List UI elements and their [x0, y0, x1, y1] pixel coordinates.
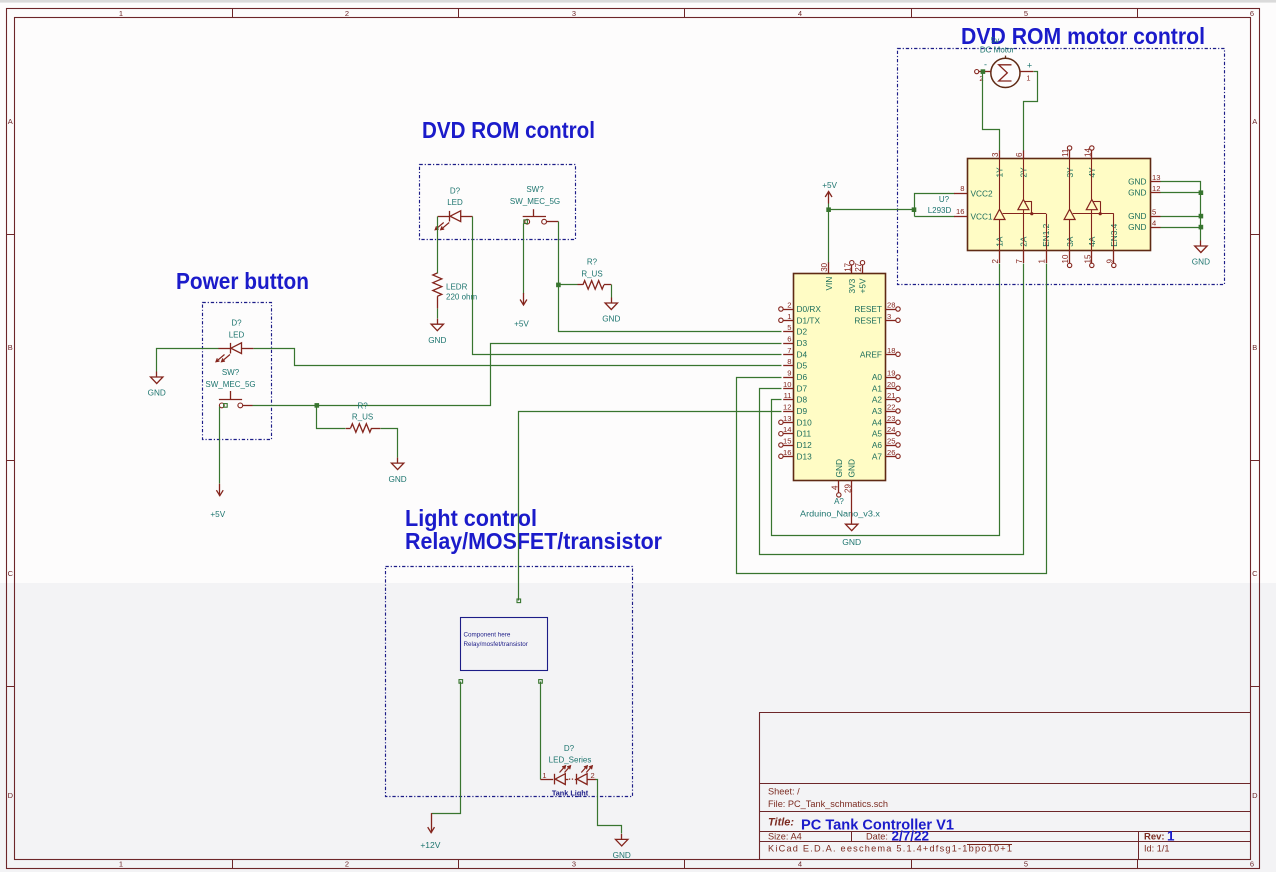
svg-text:D?: D? — [450, 187, 461, 196]
switch SW? SW_MEC_5G (DVD ROM) — [510, 185, 560, 224]
pin 15 4A (L293D bottom) — [1083, 236, 1097, 267]
svg-text:5: 5 — [1024, 9, 1028, 18]
svg-text:D?: D? — [564, 744, 575, 753]
wire: DVD switch right down to D2 — [559, 222, 782, 332]
wire: LEDR to GND — [437, 309, 439, 319]
svg-text:Date:: Date: — [866, 831, 888, 841]
svg-text:+: + — [1027, 61, 1032, 71]
dashed box: Power button — [203, 303, 272, 440]
svg-text:GND: GND — [1192, 258, 1210, 267]
svg-text:D11: D11 — [797, 429, 812, 439]
svg-text:D13: D13 — [797, 451, 813, 461]
svg-text:R?: R? — [357, 401, 368, 410]
svg-text:A1: A1 — [872, 383, 883, 393]
svg-text:GND: GND — [834, 459, 844, 477]
svg-text:A: A — [8, 117, 13, 126]
pin 3 1Y (L293D top) — [991, 150, 1005, 177]
svg-text:3: 3 — [887, 312, 891, 321]
svg-text:7: 7 — [787, 346, 791, 355]
svg-text:+5V: +5V — [210, 510, 225, 519]
pin 4 GND (Arduino bottom, unconnected) — [830, 459, 843, 497]
svg-text:Id: 1/1: Id: 1/1 — [1144, 844, 1170, 854]
pin 26 A7 (Arduino right) — [872, 448, 900, 462]
svg-text:D3: D3 — [797, 338, 808, 348]
svg-text:Component here: Component here — [464, 632, 511, 639]
svg-text:C: C — [1252, 569, 1258, 578]
svg-text:29: 29 — [843, 484, 852, 493]
op-amp U? L293D body — [928, 159, 1151, 251]
svg-text:8: 8 — [960, 184, 964, 193]
svg-text:10: 10 — [1061, 254, 1070, 263]
pin 5 D2 (Arduino left) — [783, 323, 807, 337]
pin 15 D12 (Arduino left) — [779, 437, 812, 451]
svg-text:GND: GND — [1128, 222, 1146, 232]
svg-text:Arduino_Nano_v3.x: Arduino_Nano_v3.x — [800, 510, 880, 519]
svg-text:Title:: Title: — [768, 817, 794, 829]
pin 3 RESET (Arduino right) — [854, 312, 900, 326]
pin 7 D4 (Arduino left) — [783, 346, 807, 360]
ground (Arduino) — [842, 524, 861, 547]
dashed box: Light control — [386, 567, 633, 797]
svg-text:KiCad E.D.A. eeschema 5.1.4+d: KiCad E.D.A. eeschema 5.1.4+dfsg1-1bpo10… — [768, 844, 1012, 854]
svg-text:DVD ROM control: DVD ROM control — [422, 117, 595, 143]
svg-text:-: - — [984, 60, 987, 70]
svg-text:A5: A5 — [872, 429, 883, 439]
svg-text:11: 11 — [784, 391, 792, 400]
svg-text:1: 1 — [119, 859, 123, 868]
pin 18 AREF (Arduino right) — [860, 346, 900, 360]
wire: LED_Series to GND — [596, 780, 622, 834]
pin 12 GND (L293D right) — [1128, 184, 1161, 198]
svg-text:11: 11 — [1061, 148, 1070, 157]
svg-text:DC Motor: DC Motor — [980, 46, 1015, 55]
svg-text:D2: D2 — [797, 327, 808, 337]
svg-text:12: 12 — [783, 403, 791, 412]
dashed box: DVD ROM control — [420, 165, 576, 240]
wire: DVD LED right to D4 — [473, 217, 782, 355]
svg-text:L293D: L293D — [928, 206, 952, 215]
pin 25 A6 (Arduino right) — [872, 437, 900, 451]
svg-text:3: 3 — [572, 9, 576, 18]
svg-text:2/7/22: 2/7/22 — [892, 828, 930, 843]
svg-text:8: 8 — [787, 357, 791, 366]
wire: power switch to +5V — [220, 404, 228, 484]
svg-text:5v: 5v — [991, 36, 999, 45]
ground (power R_US) — [388, 458, 406, 484]
svg-text:19: 19 — [887, 369, 895, 378]
svg-text:6: 6 — [1250, 859, 1254, 868]
wire: DVD LED left to LEDR — [437, 217, 439, 274]
svg-text:23: 23 — [887, 414, 895, 423]
svg-text:R?: R? — [587, 258, 598, 267]
svg-text:D: D — [8, 791, 14, 800]
pin 22 A3 (Arduino right) — [872, 403, 900, 417]
pin 1 EN1.2 (L293D bottom) — [1038, 223, 1052, 263]
svg-text:GND: GND — [1128, 188, 1146, 198]
svg-text:File: PC_Tank_schmatics.sch: File: PC_Tank_schmatics.sch — [768, 799, 888, 809]
svg-text:28: 28 — [887, 301, 895, 310]
motor M? DC Motor — [975, 36, 1034, 88]
svg-text:Relay/MOSFET/transistor: Relay/MOSFET/transistor — [405, 528, 662, 554]
wire: +5V junction to L293D VCC pins — [829, 194, 955, 217]
wire: Arduino D9 to light control — [517, 412, 782, 603]
svg-text:4: 4 — [798, 9, 802, 18]
junction (DVD switch/R) — [556, 283, 561, 288]
svg-text:GND: GND — [847, 459, 857, 477]
svg-text:+5V: +5V — [514, 320, 529, 329]
wire: power LED left to GND — [157, 349, 219, 372]
L293D internal driver triangles — [994, 158, 1114, 250]
svg-text:D?: D? — [231, 319, 242, 328]
pin 17 3V3 (Arduino top, unconnected) — [843, 261, 857, 294]
wire: resistor to GND (power) — [381, 429, 398, 458]
svg-text:+5V: +5V — [858, 278, 868, 293]
title block — [759, 713, 1251, 860]
svg-text:Tank Light: Tank Light — [552, 789, 589, 798]
svg-text:17: 17 — [843, 262, 852, 271]
svg-text:VIN: VIN — [824, 277, 834, 291]
op-amp U A? Arduino_Nano_v3.x body — [794, 274, 886, 519]
svg-text:D9: D9 — [797, 406, 808, 416]
svg-text:A2: A2 — [872, 395, 883, 405]
pin 13 D10 (Arduino left) — [779, 414, 812, 428]
svg-text:A3: A3 — [872, 406, 883, 416]
svg-text:+12V: +12V — [420, 840, 440, 850]
svg-text:D8: D8 — [797, 395, 808, 405]
pin 28 RESET (Arduino right) — [854, 301, 900, 315]
svg-text:25: 25 — [887, 437, 895, 446]
wire: junction down to resistor — [317, 406, 346, 429]
svg-text:+5V: +5V — [822, 181, 837, 190]
pin 14 D11 (Arduino left) — [779, 425, 812, 439]
svg-text:20: 20 — [887, 380, 895, 389]
svg-text:D: D — [1252, 791, 1258, 800]
svg-text:LED: LED — [447, 198, 463, 207]
svg-text:7: 7 — [1015, 259, 1024, 264]
node: dangling wire right under component box — [539, 680, 543, 780]
svg-text:SW?: SW? — [526, 185, 544, 194]
svg-text:2: 2 — [991, 259, 1000, 264]
svg-text:D7: D7 — [797, 383, 808, 393]
svg-text:RESET: RESET — [854, 304, 882, 314]
power symbol +12V — [420, 813, 440, 850]
pin 4 GND (L293D right) — [1128, 219, 1161, 233]
svg-text:6: 6 — [1015, 152, 1024, 157]
LED D? (DVD ROM) — [435, 187, 472, 230]
switch SW? SW_MEC_5G (power button) — [205, 368, 255, 408]
svg-text:1: 1 — [542, 771, 546, 780]
svg-text:22: 22 — [887, 403, 895, 412]
svg-text:21: 21 — [887, 391, 895, 400]
LED D? LED_Series (Tank Light) — [541, 744, 596, 798]
dashed box: DVD ROM motor control — [898, 49, 1225, 285]
wire: DVD switch left to +5V — [524, 220, 528, 294]
svg-text:1: 1 — [1167, 828, 1175, 843]
pin 2 D0/RX (Arduino left) — [779, 301, 822, 315]
svg-text:D10: D10 — [797, 417, 813, 427]
pin 8 VCC2 (L293D) — [954, 184, 993, 199]
wire: junction to DVD resistor — [559, 284, 578, 286]
svg-text:2: 2 — [591, 771, 595, 780]
svg-text:Sheet: /: Sheet: / — [768, 786, 800, 796]
svg-text:1: 1 — [119, 9, 123, 18]
svg-text:A6: A6 — [872, 440, 883, 450]
svg-text:14: 14 — [783, 425, 791, 434]
svg-text:10: 10 — [783, 380, 791, 389]
svg-text:18: 18 — [887, 346, 895, 355]
svg-text:GND: GND — [148, 389, 166, 398]
svg-text:5: 5 — [787, 323, 791, 332]
pin 8 D5 (Arduino left) — [783, 357, 807, 371]
svg-text:6: 6 — [787, 335, 791, 344]
svg-text:GND: GND — [1128, 211, 1146, 221]
power symbol +5V (DVD ROM) — [514, 293, 529, 329]
svg-text:RESET: RESET — [854, 315, 882, 325]
node: dangling wire left under component box — [432, 680, 463, 814]
svg-text:15: 15 — [783, 437, 791, 446]
wire: VIN up to +5V junction — [828, 210, 830, 263]
component placeholder box (relay/mosfet/transistor) — [461, 618, 548, 671]
svg-text:D12: D12 — [797, 440, 813, 450]
svg-text:GND: GND — [613, 851, 631, 860]
svg-text:Relay/mosfet/transistor: Relay/mosfet/transistor — [464, 641, 528, 648]
svg-text:SW_MEC_5G: SW_MEC_5G — [510, 197, 560, 206]
wire: L293D GND pins to ground — [1161, 182, 1204, 241]
pin 16 D13 (Arduino left) — [779, 448, 812, 462]
svg-text:4: 4 — [830, 485, 839, 490]
pin 9 D6 (Arduino left) — [783, 369, 807, 383]
svg-text:VCC1: VCC1 — [971, 212, 994, 222]
svg-text:16: 16 — [956, 207, 964, 216]
svg-text:GND: GND — [388, 475, 406, 484]
wire: power switch to junction and R — [253, 344, 782, 406]
svg-text:13: 13 — [783, 414, 791, 423]
resistor R? R_US (power button) — [346, 401, 381, 432]
junction (power switch/R) — [315, 403, 320, 408]
svg-text:3: 3 — [572, 859, 576, 868]
svg-text:24: 24 — [887, 425, 895, 434]
power symbol +5V (power button) — [210, 484, 225, 520]
svg-text:GND: GND — [1128, 176, 1146, 186]
pin 16 VCC1 (L293D) — [954, 207, 993, 222]
pin 30 VIN (Arduino top) — [820, 262, 834, 291]
svg-text:13: 13 — [1152, 173, 1160, 182]
svg-text:5: 5 — [1024, 859, 1028, 868]
svg-text:4: 4 — [798, 859, 802, 868]
wire: DVD resistor to GND — [611, 285, 613, 298]
svg-text:A?: A? — [834, 497, 844, 506]
svg-text:GND: GND — [428, 336, 446, 345]
pin 11 3Y (L293D top) — [1061, 146, 1075, 178]
svg-text:1: 1 — [787, 312, 791, 321]
svg-text:6: 6 — [1250, 9, 1254, 18]
svg-text:LEDR: LEDR — [446, 283, 468, 292]
pin 5 GND (L293D right) — [1128, 208, 1161, 222]
svg-text:16: 16 — [783, 448, 791, 457]
svg-text:C: C — [8, 569, 14, 578]
wire: Arduino D6 to L293D EN1.2 — [737, 264, 1047, 574]
pin 9 EN3.4 (L293D bottom) — [1105, 223, 1119, 267]
pin 7 2A (L293D bottom) — [1015, 236, 1029, 263]
svg-text:A: A — [1252, 117, 1257, 126]
svg-text:9: 9 — [787, 369, 791, 378]
svg-text:1: 1 — [1026, 74, 1030, 83]
svg-text:27: 27 — [854, 262, 863, 271]
svg-text:D1/TX: D1/TX — [797, 315, 821, 325]
ground (Tank Light) — [613, 834, 631, 860]
svg-text:Size: A4: Size: A4 — [768, 831, 802, 841]
svg-text:GND: GND — [602, 315, 620, 324]
svg-text:30: 30 — [820, 262, 829, 271]
ground power LED — [148, 372, 166, 398]
svg-text:1: 1 — [1038, 259, 1047, 264]
ground (LEDR) — [428, 319, 446, 345]
svg-text:B: B — [1252, 343, 1257, 352]
pin 29 GND (Arduino bottom) — [843, 459, 856, 493]
svg-text:D4: D4 — [797, 349, 808, 359]
ground (DVD R_US) — [602, 298, 620, 324]
svg-text:14: 14 — [1083, 148, 1092, 157]
wire: power LED right to D5 — [254, 349, 782, 366]
svg-text:A0: A0 — [872, 372, 883, 382]
svg-text:LED: LED — [229, 331, 245, 340]
pin 19 A0 (Arduino right) — [872, 369, 900, 383]
svg-text:4: 4 — [1152, 219, 1156, 228]
resistor LEDR 220 ohm — [433, 273, 478, 308]
svg-text:A4: A4 — [872, 417, 883, 427]
svg-text:SW_MEC_5G: SW_MEC_5G — [205, 380, 255, 389]
svg-text:AREF: AREF — [860, 349, 882, 359]
pin 14 4Y (L293D top) — [1083, 146, 1097, 178]
svg-text:D5: D5 — [797, 361, 808, 371]
pin 20 A1 (Arduino right) — [872, 380, 900, 394]
pin 13 GND (L293D right) — [1128, 173, 1161, 187]
svg-text:2: 2 — [787, 301, 791, 310]
ground (L293D) — [1192, 241, 1210, 267]
pin 24 A5 (Arduino right) — [872, 425, 900, 439]
svg-text:26: 26 — [887, 448, 895, 457]
pin 6 2Y (L293D top) — [1015, 150, 1029, 177]
pin 23 A4 (Arduino right) — [872, 414, 900, 428]
wire: motor - to 1Y — [981, 69, 1000, 150]
svg-text:U?: U? — [939, 195, 950, 204]
pin 11 D8 (Arduino left) — [783, 391, 807, 405]
resistor R? R_US (DVD ROM) — [578, 258, 612, 290]
svg-text:SW?: SW? — [222, 368, 240, 377]
pin 27 +5V (Arduino top, unconnected) — [854, 261, 868, 294]
svg-text:5: 5 — [1152, 208, 1156, 217]
svg-text:D0/RX: D0/RX — [797, 304, 822, 314]
pin 10 D7 (Arduino left) — [783, 380, 807, 394]
svg-text:2: 2 — [345, 859, 349, 868]
svg-text:15: 15 — [1083, 254, 1092, 263]
svg-text:A7: A7 — [872, 451, 883, 461]
svg-text:Power button: Power button — [176, 268, 309, 294]
pin 21 A2 (Arduino right) — [872, 391, 900, 405]
pin 6 D3 (Arduino left) — [783, 335, 807, 349]
power symbol +5V (L293D/VIN) — [822, 181, 837, 212]
svg-text:3: 3 — [991, 152, 1000, 157]
wire: motor + to 2Y — [1024, 72, 1038, 151]
svg-text:Rev:: Rev: — [1144, 831, 1165, 842]
svg-text:B: B — [8, 343, 13, 352]
svg-text:9: 9 — [1105, 259, 1114, 264]
svg-text:VCC2: VCC2 — [971, 189, 994, 199]
svg-text:R_US: R_US — [581, 270, 602, 279]
wire: Arduino GND pin down — [851, 492, 853, 524]
pin 1 D1/TX (Arduino left) — [779, 312, 821, 326]
svg-text:12: 12 — [1152, 184, 1160, 193]
svg-text:LED_Series: LED_Series — [549, 756, 592, 765]
wire: Arduino D8 to L293D 1A — [772, 264, 1000, 536]
svg-text:2: 2 — [345, 9, 349, 18]
svg-text:GND: GND — [842, 537, 861, 547]
pin 12 D9 (Arduino left) — [783, 403, 807, 417]
wire: Arduino D7 to L293D 2A — [760, 264, 1024, 555]
pin 10 3A (L293D bottom) — [1061, 236, 1075, 267]
svg-text:D6: D6 — [797, 372, 808, 382]
svg-text:R_US: R_US — [352, 413, 373, 422]
LED D? (power button) — [216, 319, 253, 362]
svg-text:3V3: 3V3 — [847, 278, 857, 293]
pin 2 1A (L293D bottom) — [991, 236, 1005, 263]
